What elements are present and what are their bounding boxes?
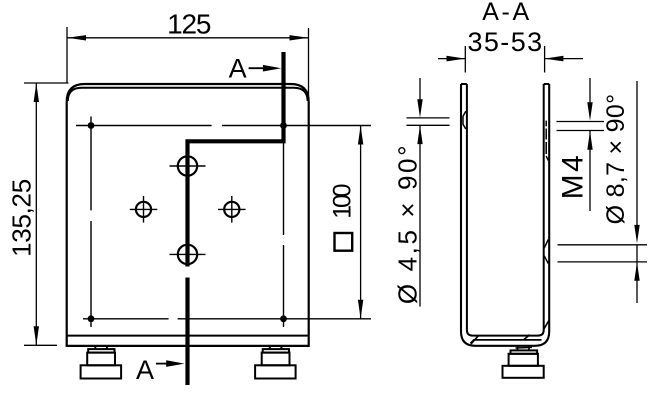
right wall countersink detail xyxy=(544,240,548,264)
section arrow A top xyxy=(249,67,266,69)
right wall M4 thread detail xyxy=(546,121,548,161)
hole dot D4 xyxy=(280,315,287,322)
section arrow A bottom xyxy=(156,363,169,365)
svg-text:100: 100 xyxy=(328,184,356,218)
hole C3 (right) xyxy=(224,202,239,217)
bottom middle plate line xyxy=(470,340,541,344)
svg-text:A: A xyxy=(136,355,154,385)
channel inner contour (section view) xyxy=(467,84,544,336)
hole C1 (top center) xyxy=(178,156,197,175)
hole dot D1 xyxy=(88,122,95,129)
bracket outline (front view) xyxy=(67,84,309,346)
dimension diameter 8,7 x 90 xyxy=(558,81,648,303)
hole C2 (left) xyxy=(136,202,151,217)
centerline right vertical xyxy=(283,117,285,328)
svg-text:A-A: A-A xyxy=(482,0,531,26)
bracket base plate line xyxy=(67,335,309,337)
dimension 125 xyxy=(67,27,309,100)
hole dot D3 xyxy=(88,315,95,322)
centerline left vertical xyxy=(90,117,92,328)
bracket top inner bend line xyxy=(68,88,308,101)
svg-text:Ø 4,5 × 90°: Ø 4,5 × 90° xyxy=(393,143,423,304)
centerline top horizontal xyxy=(76,125,371,127)
svg-text:125: 125 xyxy=(167,9,211,40)
right foot (front view) xyxy=(255,346,296,379)
svg-text:135,25: 135,25 xyxy=(7,179,37,257)
section view foot xyxy=(503,347,544,378)
section cutting line A-A (thick stepped line) xyxy=(188,52,284,385)
dimension diameter 4,5 x 90 xyxy=(407,78,450,307)
svg-text:M4: M4 xyxy=(557,153,590,200)
svg-text:A: A xyxy=(229,54,247,84)
centerline bottom horizontal xyxy=(83,318,371,320)
left wall hole detail xyxy=(463,111,466,129)
hole dot D2 xyxy=(280,122,287,129)
bottom hatching xyxy=(471,321,549,344)
dimension square 100 xyxy=(360,126,362,319)
left foot (front view) xyxy=(81,346,122,379)
svg-text:35-53: 35-53 xyxy=(467,27,543,57)
svg-text:Ø 8,7 × 90°: Ø 8,7 × 90° xyxy=(602,94,630,225)
channel outer contour (section view) xyxy=(461,84,549,346)
hole C4 (bottom center) xyxy=(178,245,197,264)
dimension 135,25 xyxy=(24,83,69,345)
wall top caps xyxy=(461,83,467,85)
dimension M4 xyxy=(557,78,605,211)
